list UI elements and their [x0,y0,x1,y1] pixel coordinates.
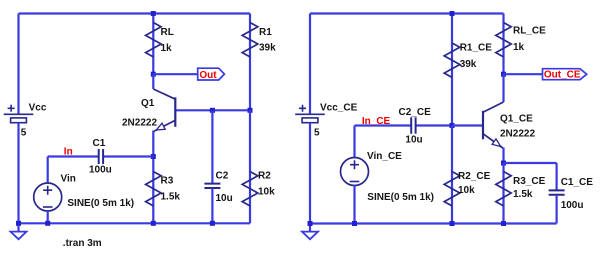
wire Vin_CE top lead [353,126,355,158]
wire top rail right [310,12,504,14]
node divider junction [248,108,253,113]
wire ground stub left [17,223,19,231]
svg-text:R1_CE: R1_CE [460,43,493,54]
wire R3_CE column [502,163,504,224]
node rail-R2_CE junction [450,221,455,226]
node rail-ground junction left [16,221,21,226]
svg-text:5: 5 [21,128,27,139]
voltage source Vcc 5V battery [4,103,47,139]
capacitor C1_CE 100u [549,177,594,211]
wire Q1 emitter lead [152,131,154,157]
wire Q1 base to divider [175,109,250,111]
wire R2 column [249,110,251,223]
svg-text:C2_CE: C2_CE [399,107,432,118]
capacitor C1 100u [89,138,112,175]
svg-text:100u: 100u [561,200,584,211]
wire emitter to C1_CE [504,162,557,164]
ground left [11,232,27,240]
node rail-Vin junction [45,221,50,226]
capacitor C2 10u [204,171,232,204]
svg-text:2N2222: 2N2222 [500,129,535,140]
svg-text:SINE(0 5m 1k): SINE(0 5m 1k) [367,192,434,203]
wire Vcc to ground rail [17,123,19,224]
node base divider junction CE [450,123,455,128]
wire In_CE net [355,124,453,126]
node rail-R1_CE junction [450,11,455,16]
wire RL column [152,14,154,75]
flag Out [198,68,225,81]
wire ground stub right [309,224,311,232]
directive .tran 3m [63,238,102,249]
label In_CE (red) [362,116,391,127]
transistor Q1_CE 2N2222 [483,102,504,148]
node emitter-C1 junction [151,154,156,159]
capacitor C2_CE 10u [399,107,432,145]
svg-text:SINE(0 5m 1k): SINE(0 5m 1k) [67,198,134,209]
svg-text:Vin: Vin [61,173,76,184]
value 2N2222 right [500,129,535,140]
wire R3 column [152,157,154,224]
label Q1 [141,98,155,109]
svg-text:R3_CE: R3_CE [513,176,546,187]
wire C2 column upper [211,110,213,183]
ground right [302,232,318,240]
svg-text:R2_CE: R2_CE [458,171,491,182]
svg-text:10u: 10u [216,193,233,204]
node collector Out_CE junction [501,72,506,77]
wire Q1 collector lead [152,74,154,89]
resistor R1_CE 39k [444,43,492,78]
wire R1 column [249,14,251,111]
wire Q1_CE base lead [452,124,483,126]
node rail-Vin_CE junction [352,221,357,226]
wire RL_CE column [502,14,504,75]
wire Vcc drop [17,14,19,115]
node rail-ground junction right [308,221,313,226]
wire Vcc_CE to ground rail [309,123,311,224]
wire C1_CE column upper [555,163,557,190]
node collector Out junction [151,72,156,77]
node rail-R3_CE junction [501,221,506,226]
svg-text:39k: 39k [460,59,477,70]
node rail-C2 junction [210,221,215,226]
svg-text:Q1_CE: Q1_CE [500,114,533,125]
svg-text:Vcc_CE: Vcc_CE [320,103,358,114]
svg-text:Q1: Q1 [141,98,155,109]
svg-text:In: In [64,146,73,157]
voltage source Vin_CE sine [341,151,435,203]
resistor RL_CE 1k [496,23,546,57]
svg-text:5: 5 [314,128,320,139]
wire Q1_CE collector lead [502,74,504,102]
svg-text:Vin_CE: Vin_CE [367,151,402,162]
svg-text:Vcc: Vcc [29,103,47,114]
svg-text:2N2222: 2N2222 [122,118,157,129]
svg-text:10u: 10u [405,135,422,146]
svg-text:R2: R2 [258,170,271,181]
wire R1_CE column [451,14,453,126]
voltage source Vin sine [34,173,134,211]
resistor R1 39k [242,23,276,57]
wire Q1_CE emitter lead [502,148,504,164]
wire Vin top lead [47,157,49,184]
wire bottom rail left [19,222,251,224]
node emitter junction CE [501,161,506,166]
svg-text:In_CE: In_CE [362,116,391,127]
label Q1_CE [500,114,533,125]
wire C2 column lower [211,188,213,223]
wire In net [48,155,154,157]
svg-text:Out: Out [199,70,217,81]
svg-text:1k: 1k [161,43,173,54]
wire Vin bottom lead [47,211,49,224]
svg-text:100u: 100u [89,164,112,175]
wire top rail left [19,12,251,14]
resistor R2 10k [242,170,275,206]
resistor RL 1k [146,23,174,57]
wire Out_CE stub [504,73,543,75]
svg-text:10k: 10k [258,186,275,197]
svg-text:RL: RL [161,27,174,38]
wire bottom rail right [310,222,557,224]
svg-text:R1: R1 [259,27,272,38]
svg-text:.tran 3m: .tran 3m [63,238,102,249]
svg-text:R3: R3 [161,176,174,187]
svg-text:C2: C2 [216,171,229,182]
wire C1_CE column lower [555,195,557,224]
wire Out stub [153,73,197,75]
svg-text:RL_CE: RL_CE [513,25,546,36]
svg-text:1k: 1k [513,42,525,53]
transistor Q1 2N2222 (mirrored) [153,89,175,131]
wire Vcc_CE drop [309,14,311,115]
voltage source Vcc_CE 5V battery [295,103,357,139]
resistor R3_CE 1.5k [496,172,546,206]
svg-text:1.5k: 1.5k [513,189,533,200]
node base-C2 junction [210,108,215,113]
svg-text:C1: C1 [93,138,106,149]
svg-text:10k: 10k [458,185,475,196]
svg-text:1.5k: 1.5k [161,191,181,202]
svg-text:39k: 39k [259,43,276,54]
label In (red) [64,146,73,157]
node rail-RL junction [151,11,156,16]
svg-text:Out_CE: Out_CE [544,69,581,80]
svg-text:C1_CE: C1_CE [561,177,594,188]
value 2N2222 left [122,118,157,129]
resistor R2_CE 10k [444,171,490,206]
resistor R3 1.5k [146,172,181,206]
node rail-R3 junction [151,221,156,226]
flag Out_CE [543,69,587,81]
wire Vin_CE bottom lead [353,185,355,223]
wire R2_CE column [451,126,453,224]
